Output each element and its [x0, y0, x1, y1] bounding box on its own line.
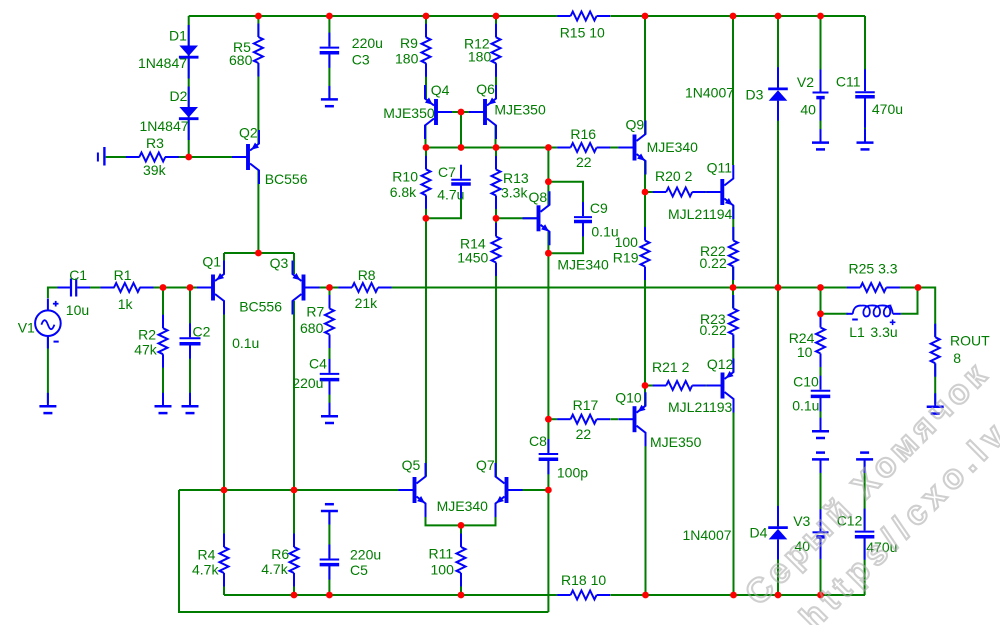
svg-text:V2: V2 — [797, 74, 814, 90]
wire bias row — [426, 147, 557, 149]
wire Q5 emitter corner — [426, 504, 462, 526]
label Q12 type — [668, 399, 733, 415]
label Q10 type — [650, 434, 702, 450]
svg-text:39k: 39k — [143, 162, 167, 178]
wire R3 to Q2 base — [165, 156, 246, 158]
label V2 value — [800, 101, 816, 117]
wire R20 node stub — [645, 191, 666, 193]
svg-text:C4: C4 — [309, 356, 327, 372]
resistor R19 — [641, 227, 650, 280]
transistor Q7 — [496, 463, 523, 517]
svg-text:R16: R16 — [570, 126, 596, 142]
label R25 — [849, 260, 898, 276]
wire Q3 base to R8 node — [306, 287, 353, 289]
node output-R22R23 — [730, 284, 737, 291]
wire R2 top stub — [162, 288, 164, 328]
wire C5 bottom — [328, 566, 330, 595]
svg-text:R15 10: R15 10 — [560, 24, 605, 40]
label C5 — [350, 562, 368, 578]
transistor Q12 — [707, 359, 734, 413]
wire R8 right lead to rail — [378, 287, 392, 289]
ground ROUT — [927, 393, 944, 413]
label V1 — [18, 320, 35, 336]
label Q1 — [202, 254, 221, 270]
label Q4 — [431, 82, 450, 98]
wire R10 top stub — [425, 148, 427, 170]
label R22 — [700, 243, 726, 259]
label R5 value — [229, 52, 253, 68]
label D2 — [170, 88, 188, 104]
label R23 — [700, 311, 726, 327]
node Q4Q6 bases — [458, 109, 465, 116]
ground C3 — [321, 86, 338, 106]
label C4 — [309, 356, 327, 372]
wire Q7 base to node — [508, 489, 549, 491]
node R11 bottom — [458, 592, 465, 599]
svg-text:3.3k: 3.3k — [501, 185, 528, 201]
resistor R22 — [729, 227, 738, 280]
label L1 value — [870, 324, 897, 340]
wire Q4 collector to node — [425, 126, 427, 148]
svg-text:1450: 1450 — [457, 249, 488, 265]
transistor Q4 — [425, 85, 452, 139]
label L1 — [849, 324, 865, 340]
label C11 value — [872, 101, 903, 117]
resistor R8 — [339, 283, 392, 292]
wire R11 top stub — [460, 525, 462, 546]
wire input port to R3 — [106, 156, 140, 158]
label R3 value — [143, 162, 167, 178]
wire Q11 emitter to R22 — [732, 206, 734, 241]
label V2 — [797, 74, 814, 90]
wire R21 node stub — [645, 385, 666, 387]
capacitor C11 — [855, 69, 875, 128]
label C1 value — [66, 302, 89, 318]
resistor R1 — [101, 283, 154, 292]
wire D3 to output rail — [777, 101, 779, 288]
wire Q9 emitter to R20 node — [644, 161, 646, 192]
resistor R10 — [422, 156, 431, 209]
label R17 value — [576, 426, 592, 442]
node Q3 collector — [291, 487, 298, 494]
svg-text:MJE350: MJE350 — [494, 102, 546, 118]
wire R12 to Q6 emitter — [495, 63, 497, 98]
label C7 — [438, 164, 456, 180]
label C8 value — [557, 465, 588, 481]
label C7 value — [437, 187, 464, 203]
wire R9 to Q4 emitter — [425, 63, 427, 98]
wire Q4 node down to Q5 collector — [425, 218, 427, 476]
svg-text:C3: C3 — [352, 51, 370, 67]
label Q6 type — [494, 102, 546, 118]
ground V2 — [812, 129, 829, 149]
svg-text:21k: 21k — [355, 295, 379, 311]
node rail-C3 — [326, 13, 333, 20]
wire C2 to ground — [189, 345, 191, 403]
wire D1-D2 column — [188, 16, 190, 157]
wire Q8 collector up to bias row — [547, 148, 549, 206]
svg-text:Q10: Q10 — [615, 389, 642, 405]
svg-text:C7: C7 — [438, 164, 456, 180]
label R23 value — [700, 322, 727, 338]
wire R2 to ground — [162, 355, 164, 403]
wire R17 node stub — [548, 418, 557, 420]
label R2 — [138, 327, 156, 343]
wire R4 bottom — [223, 574, 225, 596]
label R16 value — [576, 154, 592, 170]
diode D3 — [768, 67, 788, 121]
label Q8 type — [557, 257, 609, 273]
wire D4 column — [777, 288, 779, 527]
label R15 — [560, 24, 605, 40]
label 1N4007 D3 — [685, 84, 734, 100]
svg-text:R1: R1 — [114, 267, 132, 283]
svg-text:Q3: Q3 — [270, 255, 289, 271]
svg-text:4.7k: 4.7k — [192, 562, 219, 578]
svg-text:22: 22 — [576, 426, 592, 442]
wire C11 to ground — [864, 99, 866, 142]
capacitor C4 — [320, 359, 340, 395]
wire D4 to bottom rail — [777, 540, 779, 596]
node Q1 collector — [221, 487, 228, 494]
svg-text:R10: R10 — [392, 169, 418, 185]
svg-text:R4: R4 — [198, 547, 216, 563]
label Q6 — [476, 81, 495, 97]
wire R5 bottom to Q2 emitter — [257, 63, 259, 144]
wire V3 from ground — [820, 461, 822, 531]
wire Q4 base to Q6 base — [438, 111, 484, 113]
wire Q9 collector to rail — [644, 16, 646, 134]
svg-text:6.8k: 6.8k — [390, 184, 417, 200]
label R16 — [570, 126, 596, 142]
resistor R14 — [492, 223, 501, 276]
resistor R16 — [557, 143, 610, 152]
resistor R7 — [325, 295, 334, 348]
node C2 top — [187, 284, 194, 291]
svg-text:47k: 47k — [134, 342, 158, 358]
wire R11 bottom — [460, 574, 462, 596]
node C5 bottom — [326, 592, 333, 599]
label Q2 — [239, 125, 258, 141]
label R24 — [789, 330, 815, 346]
wire rail to Q11 collector — [732, 16, 734, 165]
wire C7 bottom corner — [426, 187, 461, 219]
svg-text:C8: C8 — [529, 433, 547, 449]
svg-text:C2: C2 — [193, 324, 211, 340]
transistor Q8 — [523, 191, 550, 245]
L1 minus sign — [852, 319, 858, 321]
svg-text:0.1u: 0.1u — [232, 335, 259, 351]
svg-text:Q2: Q2 — [239, 125, 258, 141]
wire bottom rail left of R18 — [224, 594, 557, 596]
resistor R9 — [422, 24, 431, 77]
capacitor C3 — [320, 33, 340, 68]
svg-text:180: 180 — [395, 50, 419, 66]
wire Q2 collector down to tail node — [257, 171, 259, 254]
svg-text:D1: D1 — [169, 28, 187, 44]
node bias-Q8 — [545, 144, 552, 151]
node Q3 base — [326, 284, 333, 291]
svg-text:MJL21194: MJL21194 — [668, 206, 733, 222]
label C12 value — [866, 539, 897, 555]
svg-text:Q11: Q11 — [707, 159, 733, 175]
label C12 — [837, 513, 863, 529]
wire R14 top stub — [495, 218, 497, 236]
wire Q10 collector down to rail — [645, 433, 647, 596]
wire Q1 collector down — [223, 301, 225, 490]
ground C11 — [857, 129, 874, 149]
svg-text:1k: 1k — [118, 296, 134, 312]
wire output rail — [392, 287, 859, 289]
label C2 value — [232, 335, 259, 351]
resistor R12 — [492, 24, 501, 77]
wire R23 to Q12 emitter — [732, 335, 734, 373]
label 1N4007 D4 — [683, 527, 732, 543]
wire Q6 collector to node — [495, 126, 497, 148]
label C3 value — [352, 35, 383, 51]
node Q10-R21 — [642, 382, 649, 389]
node output-D3D4 — [775, 284, 782, 291]
transistor Q6 — [469, 85, 496, 139]
svg-text:C11: C11 — [836, 73, 861, 89]
resistor R4 — [220, 534, 229, 587]
node C9 bottom — [545, 250, 552, 257]
wire R24 to C10 — [820, 354, 822, 390]
label R17 — [573, 397, 599, 413]
node V3 bottom — [817, 592, 824, 599]
svg-text:MJE350: MJE350 — [650, 434, 702, 450]
label R10 value — [390, 184, 417, 200]
svg-text:C5: C5 — [350, 562, 368, 578]
label V3 value — [795, 538, 811, 554]
resistor R3 — [126, 153, 179, 162]
node R10-C7 — [423, 215, 430, 222]
svg-text:680: 680 — [229, 52, 253, 68]
label Q8 — [529, 189, 548, 205]
wire C9 top corner — [548, 182, 583, 216]
wire R12 top stub — [495, 16, 497, 37]
svg-text:40: 40 — [800, 101, 816, 117]
diode D4 — [768, 506, 788, 560]
label R19 — [613, 250, 639, 266]
svg-text:180: 180 — [468, 49, 492, 65]
svg-text:4.7u: 4.7u — [437, 187, 464, 203]
resistor R21 — [653, 381, 706, 390]
node rail-R5 — [255, 13, 262, 20]
ground C2 — [182, 393, 199, 413]
label Q10 — [615, 389, 642, 405]
node output-zobel — [817, 284, 824, 291]
label R1 value — [118, 296, 134, 312]
wire Q12 collector down to rail — [733, 399, 735, 595]
wire V1 to C1 — [48, 288, 70, 299]
input port — [98, 147, 105, 166]
wire C3 top stub — [328, 16, 330, 46]
wire Q3 collector down — [293, 301, 295, 490]
label R6 — [271, 546, 289, 562]
svg-text:Q7: Q7 — [476, 457, 495, 473]
resistor R20 — [653, 188, 706, 197]
wire C2 top stub — [189, 288, 191, 337]
wire C12 from ground — [864, 461, 866, 530]
svg-text:100p: 100p — [557, 465, 588, 481]
ground C10 — [812, 418, 829, 438]
node rail-V2 — [817, 13, 824, 20]
svg-text:MJE350: MJE350 — [383, 105, 435, 121]
svg-text:R8: R8 — [358, 267, 376, 283]
label Q9 — [626, 117, 645, 133]
label R7 value — [300, 320, 324, 336]
wire R21 to Q12 base — [693, 385, 721, 387]
node bias-Q4 — [423, 144, 430, 151]
node R3-D2 — [185, 154, 192, 161]
label R22 value — [700, 255, 727, 271]
label C10 — [793, 374, 819, 390]
label Q5Q7 type — [437, 498, 489, 514]
resistor R17 — [557, 415, 610, 424]
svg-text:BC556: BC556 — [265, 171, 308, 187]
capacitor C9 — [574, 202, 592, 236]
wire tail node — [224, 252, 294, 254]
svg-text:Q12: Q12 — [707, 356, 734, 372]
wire bias node down to C7 — [460, 112, 462, 148]
label R4 — [198, 547, 216, 563]
resistor R2 — [159, 315, 168, 368]
svg-text:Q5: Q5 — [402, 457, 421, 473]
wire R19 top stub — [644, 192, 646, 241]
wire VAS node to Q8 base — [496, 217, 537, 219]
ground V1 — [39, 393, 56, 413]
wire C11 top corner — [864, 16, 866, 91]
wire R14 bottom to Q7 collector — [495, 263, 497, 477]
wire ROUT to ground — [934, 364, 936, 404]
node VAS out — [545, 416, 552, 423]
label R9 — [400, 35, 418, 51]
svg-text:MJL21193: MJL21193 — [668, 399, 733, 415]
label R21 — [652, 359, 690, 375]
svg-text:0.1u: 0.1u — [792, 398, 819, 414]
label C1 — [69, 267, 87, 283]
wire C8 top stub — [547, 419, 549, 452]
resistor R11 — [457, 534, 466, 587]
svg-text:D2: D2 — [170, 88, 188, 104]
svg-text:R2: R2 — [138, 327, 156, 343]
label R13 value — [501, 185, 528, 201]
svg-text:1N4847: 1N4847 — [140, 118, 189, 134]
svg-text:R7: R7 — [306, 303, 324, 319]
wire C1 to R1 — [77, 287, 114, 289]
label C8 — [529, 433, 547, 449]
node R13-R14 — [493, 215, 500, 222]
ground C5 top — [321, 504, 338, 524]
wire C8 bottom stub — [547, 461, 549, 490]
label R20 — [655, 168, 693, 184]
transistor Q5 — [399, 463, 426, 517]
wire C3 to ground — [328, 55, 330, 98]
wire R20 to Q11 base — [693, 191, 720, 193]
resistor R18 — [557, 591, 610, 600]
label C11 — [836, 73, 861, 89]
wire R19 bottom to Q10 emitter — [644, 267, 646, 406]
label R9 value — [395, 50, 419, 66]
node Q12 bottom — [730, 592, 737, 599]
label Q9 type — [647, 139, 699, 155]
node rail-D3 — [775, 13, 782, 20]
label C9 — [590, 200, 608, 216]
svg-text:C10: C10 — [793, 374, 819, 390]
diode D2 — [179, 87, 199, 141]
wire output rail right part — [888, 288, 935, 337]
resistor R24 — [816, 314, 825, 367]
capacitor C2 — [180, 323, 201, 358]
wire R6 bottom — [293, 574, 295, 596]
svg-text:L1: L1 — [849, 324, 865, 340]
svg-text:10u: 10u — [66, 302, 89, 318]
label R12 value — [468, 49, 492, 65]
wire R13 bottom to VAS node — [495, 196, 497, 218]
node bias-R13 — [493, 144, 500, 151]
svg-text:0.22: 0.22 — [700, 322, 727, 338]
label Q11 type — [668, 206, 733, 222]
svg-text:R3: R3 — [146, 135, 164, 151]
capacitor C7 — [451, 165, 471, 199]
transistor Q9 — [619, 121, 646, 175]
label Q5 — [402, 457, 421, 473]
watermark — [738, 354, 1000, 625]
ground C12 top — [856, 453, 873, 473]
wire R7 top stub — [329, 288, 331, 309]
node L1 left — [817, 310, 824, 317]
inductor L1 — [847, 305, 901, 316]
wire top positive rail left of R15 — [189, 15, 557, 17]
L1 plus sign — [890, 320, 896, 326]
label R18 — [561, 572, 606, 588]
wire R9 top stub — [425, 16, 427, 37]
svg-text:R21 2: R21 2 — [652, 359, 690, 375]
wire V2 top — [820, 16, 822, 91]
svg-text:220u: 220u — [350, 547, 381, 563]
wire Q1 emitter up — [223, 253, 225, 274]
source V1 — [35, 298, 61, 348]
transistor Q3 — [292, 261, 319, 315]
resistor R5 — [254, 24, 263, 77]
wire R4 top — [223, 490, 225, 547]
node R6 bottom — [291, 592, 298, 599]
svg-text:Q1: Q1 — [202, 254, 221, 270]
label Q4 type — [383, 105, 435, 121]
capacitor C5 — [320, 545, 340, 580]
label C2 — [193, 324, 211, 340]
node rail-Q11 — [730, 13, 737, 20]
node Q7 base — [545, 487, 552, 494]
svg-text:R18 10: R18 10 — [561, 572, 606, 588]
wire Q3 emitter up — [293, 253, 295, 274]
svg-text:R17: R17 — [573, 397, 599, 413]
node rail-Q9 — [642, 13, 649, 20]
svg-text:R25 3.3: R25 3.3 — [849, 260, 898, 276]
node Q10 bottom — [642, 592, 649, 599]
battery V3 — [813, 509, 829, 559]
wire R22 to output node — [732, 267, 734, 288]
wire C12 to bottom rail — [864, 538, 866, 595]
ground V3 top — [812, 453, 829, 473]
label R13 — [503, 170, 529, 186]
resistor R6 — [290, 534, 299, 587]
wire R16 to Q9 base — [597, 147, 631, 149]
label R19 value — [615, 234, 639, 250]
transistor Q2 — [232, 130, 259, 184]
wire top positive rail right of R15 — [610, 15, 865, 17]
